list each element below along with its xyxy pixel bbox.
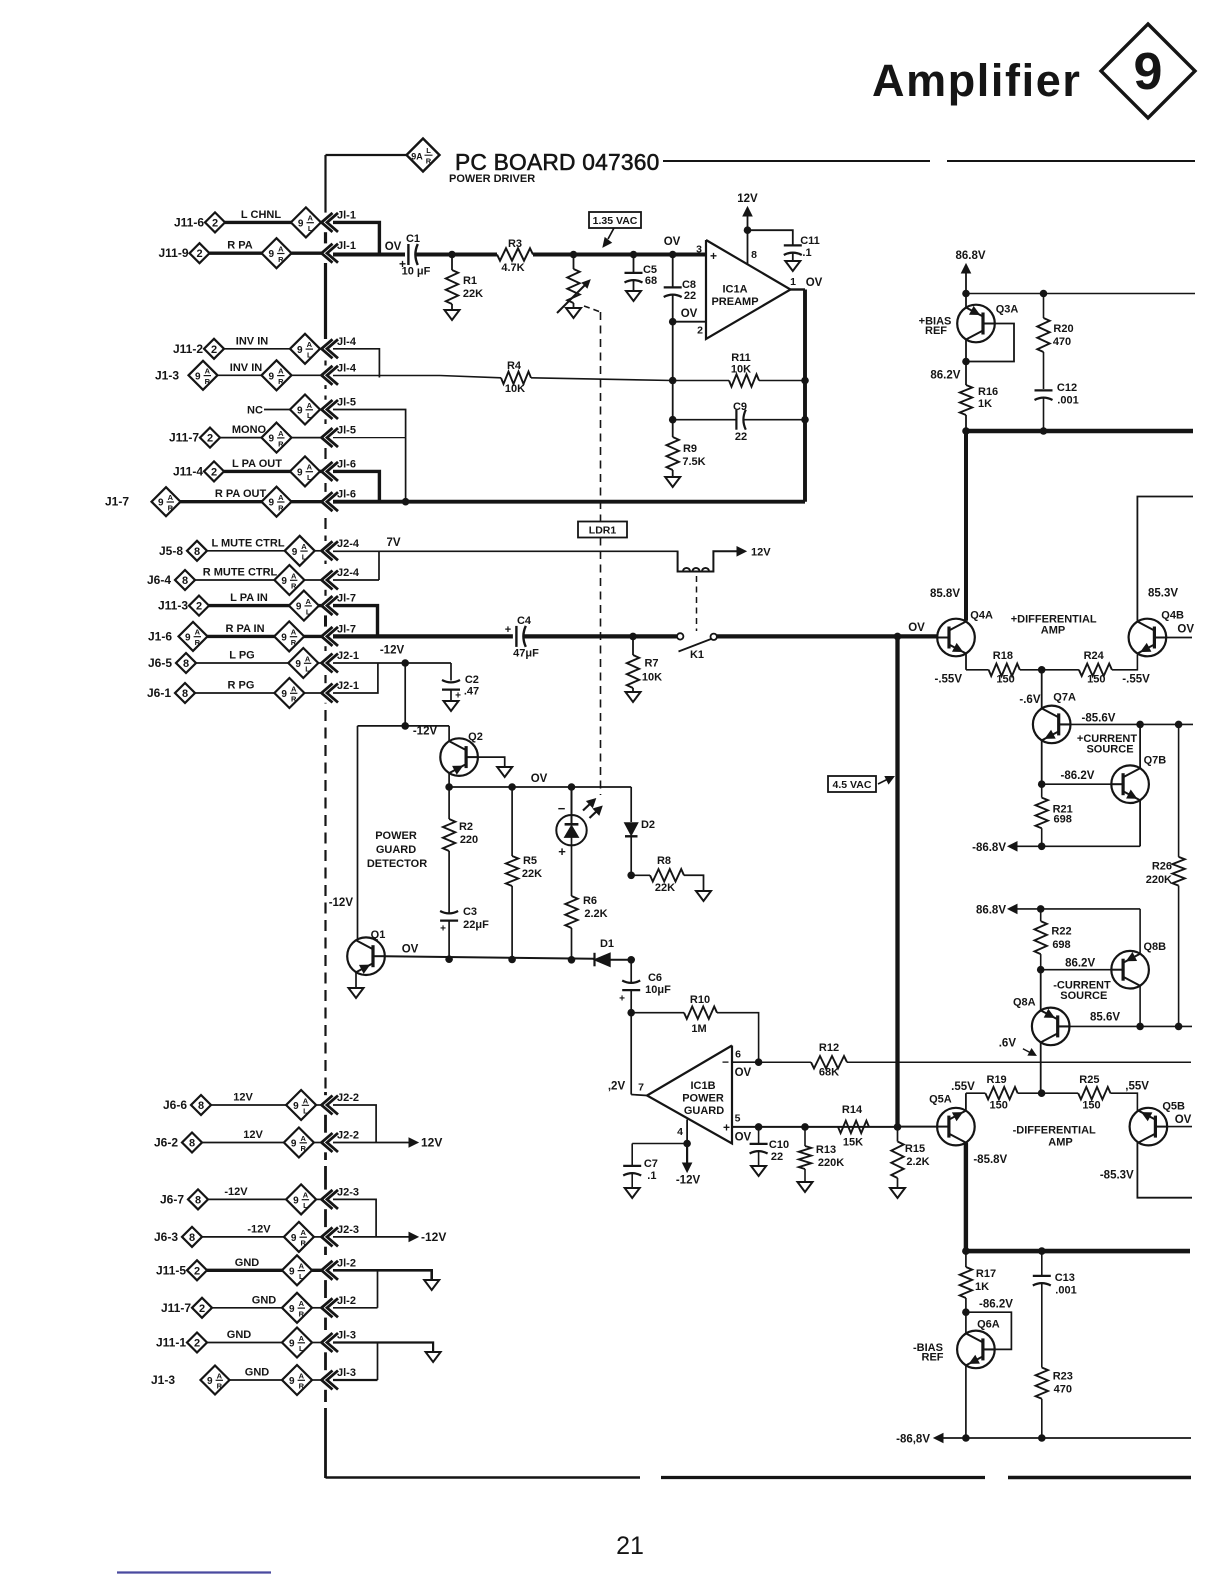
- ground under C7: [625, 1188, 640, 1198]
- wire -12V rail down to Q2: [448, 726, 450, 741]
- svg-text:A: A: [195, 628, 201, 637]
- wire vertical C8 node to R11 node: [672, 322, 674, 381]
- svg-text:R13: R13: [816, 1144, 836, 1156]
- svg-text:9: 9: [291, 1139, 297, 1150]
- svg-text:R: R: [205, 377, 211, 386]
- svg-text:9: 9: [296, 602, 302, 613]
- -12V output arrow: [333, 1236, 409, 1238]
- transistor Q5B: [1130, 1108, 1168, 1146]
- svg-text:9: 9: [207, 1376, 213, 1387]
- svg-text:A: A: [305, 597, 311, 606]
- transistor Q4A: [937, 619, 975, 657]
- svg-text:D1: D1: [600, 938, 614, 950]
- svg-text:9: 9: [292, 547, 298, 558]
- svg-text:Jl-5: Jl-5: [337, 425, 356, 437]
- dashed link potentiometer to LDR1: [584, 306, 601, 312]
- capacitor C8 22: [672, 255, 674, 288]
- thick wire bus node down to Q5A node: [895, 636, 899, 1126]
- svg-text:J2-3: J2-3: [337, 1186, 359, 1198]
- wire IC1B pin5 line: [732, 1126, 898, 1128]
- resistor R26 220K: [1178, 724, 1180, 857]
- resistor R10 1M: [631, 1012, 684, 1014]
- svg-text:Q1: Q1: [371, 929, 386, 941]
- svg-text:C3: C3: [463, 906, 477, 918]
- svg-text:INV IN: INV IN: [236, 335, 268, 347]
- svg-text:6: 6: [735, 1049, 741, 1061]
- svg-text:+: +: [505, 624, 511, 636]
- svg-text:R15: R15: [905, 1143, 925, 1155]
- svg-text:J11-5: J11-5: [156, 1263, 186, 1277]
- resistor R20 470: [1043, 294, 1045, 319]
- svg-text:J2-1: J2-1: [337, 650, 359, 662]
- junction R16 bottom: [962, 427, 970, 435]
- svg-text:220K: 220K: [818, 1157, 844, 1169]
- svg-text:R: R: [278, 255, 284, 264]
- junction C13 top: [1038, 1247, 1046, 1255]
- svg-text:J1-7: J1-7: [105, 495, 129, 509]
- svg-text:A: A: [291, 628, 297, 637]
- capacitor C2 .47: [450, 663, 452, 681]
- svg-text:10K: 10K: [731, 364, 751, 376]
- svg-text:2: 2: [211, 466, 217, 478]
- svg-text:J5-8: J5-8: [159, 544, 183, 558]
- svg-text:R: R: [217, 1382, 223, 1391]
- wire GND row 1 to ground: [333, 1270, 432, 1280]
- wire Q4B collector up to 85.3V corner: [1137, 497, 1193, 621]
- svg-text:12V: 12V: [233, 1092, 253, 1104]
- svg-text:10 μF: 10 μF: [402, 266, 431, 278]
- svg-text:A: A: [299, 1334, 305, 1343]
- svg-text:L: L: [303, 1107, 308, 1116]
- svg-text:220: 220: [460, 834, 478, 846]
- resistor R17 1K: [965, 1251, 967, 1267]
- wire Q7A emitter down to -86.2V node: [1041, 740, 1043, 784]
- svg-text:.001: .001: [1055, 1285, 1076, 1297]
- junction R21 bottom: [1038, 843, 1046, 851]
- svg-text:Jl-6: Jl-6: [337, 458, 356, 470]
- svg-text:J11-3: J11-3: [158, 599, 188, 613]
- wire -12V rail to Q1/Q2: [358, 725, 450, 727]
- wire 86.2V node down to Q8A base-top: [1040, 970, 1042, 1010]
- svg-text:GND: GND: [235, 1257, 260, 1269]
- relay K1 contact: [677, 633, 683, 639]
- svg-text:9: 9: [185, 632, 191, 643]
- ground under C10: [751, 1166, 766, 1176]
- svg-text:A: A: [291, 684, 297, 693]
- svg-text:A: A: [301, 542, 307, 551]
- 86.2V line to Q8B base: [1041, 969, 1112, 971]
- junction Q3A emitter top: [962, 290, 970, 298]
- junction pin5 line / main branch: [894, 1123, 902, 1131]
- wire J1-4 pin jumper: [333, 349, 379, 378]
- svg-text:12V: 12V: [737, 193, 758, 205]
- svg-text:-86.2V: -86.2V: [979, 1298, 1013, 1310]
- transistor Q5A: [937, 1108, 975, 1146]
- wire preamp pin2: [673, 321, 706, 323]
- svg-text:9: 9: [298, 218, 304, 229]
- wire IC1A output: [791, 288, 806, 290]
- wire IC1B pin6 to R12 node: [732, 1061, 759, 1063]
- resistor R21 698: [1041, 784, 1043, 797]
- svg-text:8: 8: [182, 575, 188, 587]
- wire 86.8V corner down to Q8B collector: [1139, 909, 1141, 953]
- svg-text:−: −: [722, 1055, 729, 1069]
- svg-text:-.6V: -.6V: [1019, 694, 1040, 706]
- resistor R22 698: [1040, 909, 1042, 921]
- svg-text:Q6A: Q6A: [977, 1319, 1000, 1331]
- svg-text:R20: R20: [1053, 323, 1073, 335]
- svg-text:85.8V: 85.8V: [930, 588, 960, 600]
- wire C8 node chain to R9: [672, 381, 674, 438]
- svg-text:8: 8: [182, 688, 188, 700]
- board boundary vertical line x=325: [324, 155, 326, 213]
- svg-text:J2-2: J2-2: [337, 1092, 359, 1104]
- svg-text:698: 698: [1052, 939, 1070, 951]
- -86.8V line with arrow: [1016, 845, 1140, 847]
- wire Q7B emitter down to -86.8V line: [1139, 800, 1141, 846]
- svg-text:R23: R23: [1053, 1371, 1073, 1383]
- wire 12V node to C11: [748, 230, 793, 245]
- svg-text:C1: C1: [406, 233, 420, 245]
- svg-text:GUARD: GUARD: [684, 1105, 724, 1117]
- svg-text:10μF: 10μF: [645, 984, 671, 996]
- svg-text:A: A: [205, 367, 211, 376]
- svg-text:10K: 10K: [642, 672, 662, 684]
- svg-text:9: 9: [1134, 43, 1163, 101]
- svg-text:9: 9: [297, 406, 303, 417]
- junction pin4/C7: [683, 1140, 691, 1148]
- svg-text:OV: OV: [664, 236, 681, 248]
- svg-text:-12V: -12V: [247, 1223, 271, 1235]
- svg-text:R3: R3: [508, 238, 522, 250]
- junction D1 / C6 node: [627, 956, 635, 964]
- wire Q3A base loop: [966, 324, 1014, 362]
- junction R22 bottom / 86.2V line: [1037, 966, 1045, 974]
- ground under potentiometer: [566, 308, 581, 318]
- svg-text:,2V: ,2V: [608, 1081, 626, 1093]
- capacitor C13 .001: [1041, 1251, 1043, 1275]
- svg-text:22K: 22K: [463, 288, 483, 300]
- svg-text:12V: 12V: [751, 547, 771, 559]
- svg-text:J11-4: J11-4: [173, 464, 203, 478]
- svg-text:J2-4: J2-4: [337, 567, 360, 579]
- svg-text:86.2V: 86.2V: [930, 370, 960, 382]
- svg-text:R16: R16: [978, 386, 998, 398]
- ground under R8: [696, 891, 711, 901]
- 86.8V line lower with arrow: [1016, 908, 1140, 910]
- svg-text:OV: OV: [531, 773, 548, 785]
- svg-text:OV: OV: [385, 241, 402, 253]
- LDR light arrows: [583, 802, 592, 811]
- heavy 86.2V rail: [966, 429, 1193, 434]
- svg-text:1: 1: [790, 276, 796, 288]
- wire Q6A base loop: [966, 1312, 1012, 1349]
- junction C8 / preamp +input: [669, 251, 677, 259]
- svg-text:9: 9: [269, 371, 275, 382]
- op-amp IC1A PREAMP: [706, 240, 791, 339]
- boxed label 1.35 VAC: [589, 212, 641, 228]
- svg-text:A: A: [278, 493, 284, 502]
- svg-text:2: 2: [196, 601, 202, 613]
- capacitor C9 22 feedback: [673, 419, 736, 421]
- wire Jl-3 jumper: [377, 1343, 379, 1381]
- junction -85.6V/Q7B collector: [1136, 721, 1144, 729]
- wire Q1 emitter to ground: [355, 972, 357, 988]
- wire Q5B collector down and right: [1137, 1143, 1192, 1198]
- svg-text:R: R: [299, 1310, 305, 1319]
- wire J6-4 row to jumper: [333, 579, 379, 581]
- 12V output arrow: [333, 1142, 409, 1144]
- svg-text:3: 3: [696, 244, 702, 256]
- svg-text:Jl-3: Jl-3: [337, 1367, 356, 1379]
- blue pen mark bottom left: [117, 1571, 271, 1573]
- svg-text:Jl-2: Jl-2: [337, 1295, 356, 1307]
- board boundary bottom line segment 1: [326, 1476, 641, 1479]
- arrow from 1.35 VAC box to bus: [608, 228, 614, 239]
- resistor R14 15K: [838, 1121, 869, 1133]
- capacitor C1 10uF: [407, 244, 409, 265]
- wire Q8B emitter down to 85.6V line: [1139, 986, 1141, 1027]
- svg-text:R PA OUT: R PA OUT: [215, 488, 267, 500]
- ground under C2: [444, 701, 459, 711]
- junction C12 bottom: [1040, 427, 1048, 435]
- resistor R6 2.2K: [565, 896, 577, 928]
- svg-text:A: A: [305, 654, 311, 663]
- svg-text:A: A: [300, 1228, 306, 1237]
- junction C1/R1: [448, 251, 456, 259]
- svg-text:Jl-1: Jl-1: [337, 209, 356, 221]
- svg-text:J6-2: J6-2: [154, 1136, 178, 1150]
- svg-text:-86.8V: -86.8V: [972, 842, 1006, 854]
- svg-text:J11-7: J11-7: [161, 1301, 191, 1315]
- svg-text:REF: REF: [925, 325, 947, 337]
- svg-text:Q8B: Q8B: [1143, 941, 1166, 953]
- capacitor C5 68: [633, 255, 635, 273]
- thick main bus relay to Q4A base: [717, 634, 938, 638]
- svg-text:-86.2V: -86.2V: [1061, 770, 1095, 782]
- svg-text:-12V: -12V: [676, 1175, 701, 1187]
- svg-text:2: 2: [207, 433, 213, 445]
- svg-text:R: R: [168, 503, 174, 512]
- junction Q3A collector/R16: [962, 358, 970, 366]
- junction preamp -input node: [669, 318, 677, 326]
- transistor Q1: [347, 937, 385, 975]
- svg-text:2.2K: 2.2K: [906, 1156, 929, 1168]
- junction 85.6V/R26 bottom: [1175, 1023, 1183, 1031]
- wire MONO row to junction: [333, 437, 406, 439]
- svg-text:A: A: [299, 1262, 305, 1271]
- svg-text:Amplifier: Amplifier: [872, 55, 1081, 106]
- svg-text:L: L: [299, 1272, 304, 1281]
- svg-text:Q4A: Q4A: [970, 610, 993, 622]
- svg-text:2: 2: [212, 217, 218, 229]
- svg-text:OV: OV: [1177, 624, 1194, 636]
- junction R17 top: [962, 1247, 970, 1255]
- svg-text:J2-1: J2-1: [337, 680, 359, 692]
- thick wire IC1A output down to R PA OUT bus: [803, 290, 807, 502]
- svg-text:+: +: [710, 249, 717, 263]
- wire Q6A emitter down to -86.8V line: [965, 1365, 967, 1438]
- wire R18/R24 node down to Q7A: [1041, 670, 1043, 708]
- svg-text:86.8V: 86.8V: [955, 250, 985, 262]
- svg-text:12V: 12V: [421, 1136, 442, 1150]
- svg-text:220K: 220K: [1146, 874, 1172, 886]
- svg-text:R22: R22: [1051, 926, 1071, 938]
- svg-text:22: 22: [684, 290, 696, 302]
- thick R PA OUT bus to IC1A output: [333, 500, 805, 504]
- junction Q7A/R21/-86.2V line: [1038, 780, 1046, 788]
- svg-text:J2-4: J2-4: [337, 538, 360, 550]
- svg-text:9A: 9A: [411, 152, 423, 162]
- svg-text:PC BOARD 047360: PC BOARD 047360: [455, 149, 659, 175]
- svg-text:L: L: [305, 665, 310, 674]
- svg-text:GND: GND: [245, 1367, 270, 1379]
- svg-text:R24: R24: [1084, 650, 1105, 662]
- svg-text:9: 9: [281, 576, 287, 587]
- resistor R16 1K: [965, 362, 967, 386]
- 12V supply arrow at IC1A pin 8: [747, 230, 749, 264]
- svg-text:Q4B: Q4B: [1161, 610, 1184, 622]
- svg-text:L: L: [307, 473, 312, 482]
- svg-text:L MUTE CTRL: L MUTE CTRL: [211, 537, 284, 549]
- svg-text:R26: R26: [1152, 861, 1172, 873]
- svg-text:A: A: [278, 367, 284, 376]
- wire IC1B output to C6 chain: [631, 1095, 647, 1096]
- svg-text:AMP: AMP: [1048, 1137, 1072, 1149]
- board boundary bottom line segment 3: [1008, 1476, 1191, 1479]
- svg-text:R: R: [291, 695, 297, 704]
- svg-text:1M: 1M: [691, 1023, 706, 1035]
- svg-text:86.8V: 86.8V: [976, 904, 1006, 916]
- junction pin5/C10: [755, 1123, 763, 1131]
- ground at J11-5 GND: [424, 1280, 439, 1290]
- svg-text:15K: 15K: [843, 1137, 863, 1149]
- svg-text:R MUTE CTRL: R MUTE CTRL: [203, 567, 278, 579]
- svg-text:J1-3: J1-3: [155, 368, 179, 382]
- junction R7: [629, 633, 637, 641]
- resistor R18 150: [966, 669, 989, 671]
- svg-text:470: 470: [1053, 336, 1071, 348]
- wire Q2 emitter to OV line: [448, 773, 450, 787]
- svg-text:Q2: Q2: [468, 731, 483, 743]
- svg-text:2: 2: [697, 325, 703, 337]
- svg-text:R: R: [195, 638, 201, 647]
- svg-text:470: 470: [1054, 1384, 1072, 1396]
- svg-text:R12: R12: [819, 1042, 839, 1054]
- svg-text:R18: R18: [993, 650, 1013, 662]
- svg-text:10K: 10K: [505, 383, 525, 395]
- title rule line right of PC BOARD: [663, 160, 930, 162]
- svg-text:A: A: [278, 429, 284, 438]
- svg-text:L: L: [302, 553, 307, 562]
- svg-text:1K: 1K: [975, 1281, 989, 1293]
- wire C1 to R3: [416, 253, 497, 257]
- svg-text:J6-1: J6-1: [147, 686, 171, 700]
- svg-text:Jl-2: Jl-2: [337, 1257, 356, 1269]
- svg-text:R PA IN: R PA IN: [225, 623, 264, 635]
- svg-text:9: 9: [295, 659, 301, 670]
- svg-text:IC1A: IC1A: [722, 284, 747, 296]
- arrow .6V pointing at wire: [1023, 1049, 1031, 1053]
- svg-text:.6V: .6V: [999, 1038, 1017, 1050]
- op-amp IC1B POWER GUARD: [647, 1046, 732, 1144]
- arrow 4.5 VAC to bus branch: [878, 779, 888, 784]
- capacitor C3 22uF: [440, 911, 458, 913]
- transistor Q8B: [1111, 951, 1149, 989]
- title rule line segment 2: [947, 160, 1195, 162]
- svg-text:OV: OV: [1175, 1114, 1192, 1126]
- svg-text:A: A: [278, 245, 284, 254]
- svg-text:9: 9: [195, 371, 201, 382]
- svg-text:9: 9: [281, 689, 287, 700]
- svg-text:A: A: [303, 1191, 309, 1200]
- wire IC1B pin4: [686, 1120, 688, 1144]
- svg-text:9: 9: [269, 434, 275, 445]
- transistor Q7A: [1033, 706, 1071, 744]
- svg-text:9: 9: [269, 249, 275, 260]
- junction -12V node: [401, 659, 409, 667]
- svg-text:R: R: [300, 1239, 306, 1248]
- svg-text:5: 5: [735, 1113, 741, 1125]
- junction 12V / C11: [744, 226, 752, 234]
- thick wire 86.2V rail down to Q4A collector: [964, 431, 968, 621]
- svg-text:R: R: [291, 582, 297, 591]
- svg-text:R: R: [278, 503, 284, 512]
- svg-text:Jl-4: Jl-4: [337, 336, 357, 348]
- ground under R9: [665, 477, 680, 487]
- wire OV node to Q5A base: [898, 1126, 937, 1128]
- svg-text:SOURCE: SOURCE: [1060, 990, 1107, 1002]
- svg-text:POWER: POWER: [375, 830, 417, 842]
- thick wire Q5A collector down: [964, 1143, 968, 1252]
- svg-text:POWER DRIVER: POWER DRIVER: [449, 173, 535, 185]
- svg-text:C11: C11: [800, 235, 820, 247]
- svg-text:47μF: 47μF: [513, 648, 539, 660]
- svg-text:-12V: -12V: [380, 645, 405, 657]
- board boundary bottom line segment 2: [661, 1476, 985, 1479]
- svg-text:+: +: [619, 994, 625, 1005]
- resistor R8 22K: [631, 874, 650, 876]
- svg-text:-85.8V: -85.8V: [973, 1154, 1007, 1166]
- svg-text:J11-2: J11-2: [173, 342, 203, 356]
- -86.2V line to Q7B base: [1042, 783, 1112, 785]
- svg-text:68: 68: [645, 275, 657, 287]
- svg-text:7V: 7V: [386, 537, 400, 549]
- svg-text:-.55V: -.55V: [935, 674, 963, 686]
- svg-text:7: 7: [638, 1082, 644, 1094]
- svg-text:+: +: [558, 844, 566, 859]
- wire L PA IN jumper to main bus: [333, 606, 378, 637]
- resistor R1 22K: [451, 255, 453, 271]
- svg-text:,55V: ,55V: [1125, 1081, 1149, 1093]
- ground under R1: [445, 310, 460, 320]
- diode D1: [593, 953, 595, 967]
- relay K1 coil: [678, 551, 737, 571]
- wire Jl-2 jumper: [377, 1270, 379, 1308]
- dashed relay actuation link: [696, 576, 698, 631]
- svg-text:C4: C4: [517, 615, 532, 627]
- transistor Q8A: [1032, 1008, 1070, 1046]
- svg-text:Q7B: Q7B: [1144, 755, 1167, 767]
- resistor R23 470: [1036, 1368, 1048, 1399]
- svg-text:MONO: MONO: [232, 424, 267, 436]
- svg-text:.47: .47: [464, 686, 479, 698]
- svg-text:R: R: [278, 377, 284, 386]
- resistor R12 68K: [759, 1061, 811, 1063]
- resistor R4 10K: [501, 372, 531, 384]
- resistor R7 10K: [632, 636, 634, 655]
- svg-text:L: L: [307, 411, 312, 420]
